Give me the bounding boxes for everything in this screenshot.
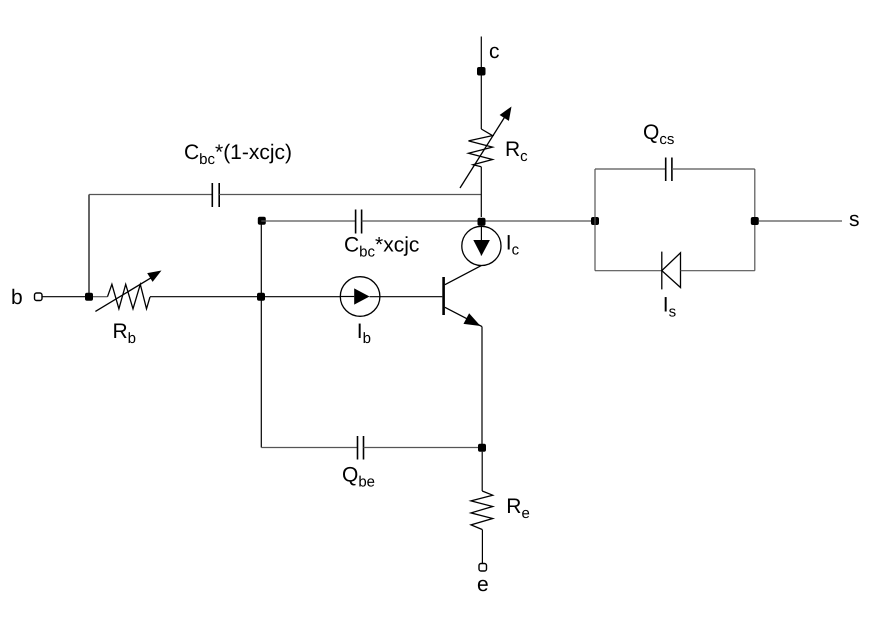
wire Rc to collector node: [480, 167, 482, 217]
diode Is: [662, 252, 681, 290]
node b: [11, 286, 42, 309]
svg-text:s: s: [849, 208, 860, 231]
resistor Rc: [469, 129, 493, 167]
wire internal base vertical: [260, 221, 262, 448]
wire left half of Cbc*xcjc net: [261, 220, 355, 222]
svg-text:b: b: [11, 286, 23, 309]
junction Qcs left: [591, 217, 599, 225]
wire Re to e terminal: [481, 530, 483, 564]
resistor Rb variable arrow: [95, 271, 161, 312]
wire Qcs top right segment: [672, 168, 755, 170]
wire c terminal down to Rc: [480, 37, 482, 130]
wire base junction to Ib source: [265, 296, 340, 298]
wire Qcs left rail: [594, 169, 596, 271]
wire emitter node to Re: [481, 452, 483, 491]
resistor Rc variable arrow: [460, 107, 512, 189]
wire Qbe left segment: [261, 447, 357, 449]
svg-text:Cbc*xcjc: Cbc*xcjc: [344, 234, 419, 261]
wire left half of Cbc*(1-xcjc) net: [89, 194, 212, 196]
node e: [477, 564, 489, 597]
wire junction up to Cbc(1-xcjc) wire: [88, 195, 90, 297]
junction base node (internal): [257, 293, 265, 301]
capacitor Qcs: [666, 158, 672, 182]
wire Qcs right rail: [754, 169, 756, 271]
wire right half of Cbc*(1-xcjc) net: [219, 194, 481, 196]
wire collector node to Qcs block: [486, 220, 596, 222]
junction at base input: [85, 293, 93, 301]
wire Qbe right segment: [364, 447, 483, 449]
junction Cbc*xcjc node: [258, 217, 266, 225]
current source Ib: [340, 277, 380, 317]
resistor Rb: [108, 284, 151, 309]
wire Qcs top left segment: [595, 168, 666, 170]
capacitor Cbc*xcjc: [356, 210, 362, 234]
wire to s terminal: [759, 220, 842, 222]
node c: [477, 40, 500, 76]
wire Rb to base junction: [150, 296, 258, 298]
resistor Rb lead-in wire: [93, 296, 108, 298]
junction Qcs right: [751, 217, 759, 225]
wire Is bottom right segment: [681, 270, 755, 272]
current source Ic: [462, 226, 501, 266]
junction emitter node: [478, 444, 486, 452]
wire transistor emitter down to Qbe node: [481, 327, 483, 448]
wire b terminal to junction: [43, 296, 87, 298]
svg-text:e: e: [477, 573, 489, 596]
capacitor Qbe: [358, 436, 364, 460]
wire right half of Cbc*xcjc net: [362, 220, 482, 222]
resistor Re: [471, 491, 493, 530]
svg-text:c: c: [489, 40, 500, 63]
capacitor Cbc*(1-xcjc): [212, 183, 219, 207]
junction collector node: [478, 218, 486, 226]
transistor Q1: [442, 266, 482, 327]
wire Ib source to transistor base: [370, 296, 443, 298]
wire Is bottom left segment: [595, 270, 662, 272]
